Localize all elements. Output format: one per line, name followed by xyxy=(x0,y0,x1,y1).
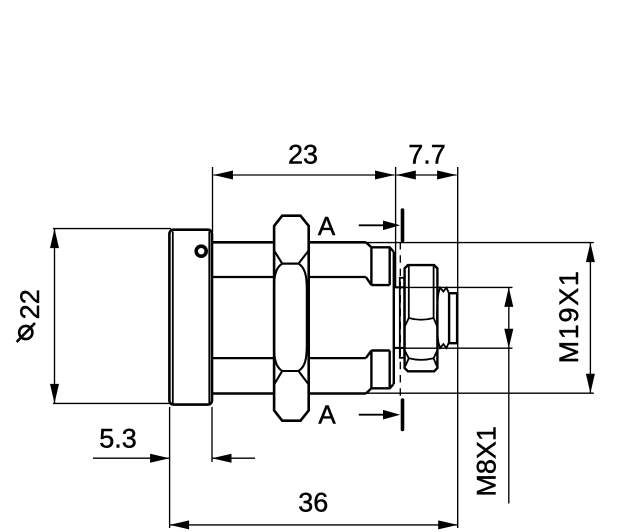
dia22 top extension xyxy=(53,228,171,230)
arrowhead 7.7 left xyxy=(396,171,416,180)
inner cylinder bottom line xyxy=(212,357,366,359)
M19X1 bottom extension xyxy=(366,392,594,394)
barrel bottom line xyxy=(212,392,366,395)
right extension line long xyxy=(457,167,459,528)
M8 stem bottom xyxy=(394,347,405,349)
dia22 bottom extension xyxy=(53,402,171,404)
M8 thread left boundary xyxy=(437,293,438,342)
svg-text:M19X1: M19X1 xyxy=(554,269,584,363)
arrowhead M8 top xyxy=(504,287,513,307)
arrowhead 7.7 right xyxy=(437,171,457,180)
arrowhead M19 bottom xyxy=(586,374,595,394)
M8 thread crest zigzag top xyxy=(438,288,449,294)
end stub xyxy=(449,293,457,343)
panel bar top xyxy=(401,210,405,241)
lock nut chamfer diagonals xyxy=(405,318,437,358)
svg-text:22: 22 xyxy=(15,289,45,319)
arrowhead 36 left xyxy=(170,520,190,529)
M8X1 dim line xyxy=(508,287,510,503)
arrowhead A top xyxy=(383,221,400,231)
hex middle lens xyxy=(274,264,307,371)
dim 5.3 right tail xyxy=(212,457,255,459)
svg-text:36: 36 xyxy=(298,488,328,518)
arrowhead 5.3 left xyxy=(150,454,170,463)
svg-text:A: A xyxy=(318,400,336,430)
hex top face boundary xyxy=(274,251,309,264)
panel dashed line xyxy=(399,242,401,398)
diameter symbol slash xyxy=(17,323,35,342)
M8 stem top xyxy=(394,286,405,288)
dim 23 left extension xyxy=(212,167,214,232)
dia22 dim line xyxy=(54,229,56,404)
washer xyxy=(400,278,404,358)
M8 thread crest zigzag bottom xyxy=(438,343,449,349)
dim 5.3 right extension xyxy=(211,407,213,462)
hole xyxy=(196,246,206,256)
M8 thread right boundary xyxy=(448,293,450,342)
M8X1 top extension xyxy=(394,286,513,288)
barrel top line xyxy=(212,241,366,244)
section arrow A top xyxy=(359,224,385,226)
dim 7.7 line xyxy=(396,174,456,176)
dim 36 line xyxy=(170,524,458,526)
svg-text:23: 23 xyxy=(288,140,318,170)
dim 5.3 left tail xyxy=(93,457,170,459)
arrowhead dia22 bottom xyxy=(50,384,59,404)
svg-text:M8X1: M8X1 xyxy=(472,426,502,497)
lock nut face arc upper xyxy=(409,318,434,320)
lock nut face arc lower xyxy=(409,358,434,360)
section arrow A bottom xyxy=(359,414,385,416)
lock nut inner left xyxy=(408,265,410,318)
arrowhead M8 bottom xyxy=(504,329,513,349)
cap xyxy=(169,230,212,405)
arrowhead 5.3 right xyxy=(212,454,232,463)
panel bar bottom xyxy=(401,400,405,429)
arrowhead 23 right xyxy=(375,171,395,180)
M19X1 dim line xyxy=(589,243,591,394)
hex nut outline xyxy=(274,216,309,421)
left extension line long xyxy=(169,407,171,528)
thread end face xyxy=(393,252,395,385)
lock nut inner right xyxy=(433,265,435,318)
svg-text:7.7: 7.7 xyxy=(408,140,446,170)
svg-text:5.3: 5.3 xyxy=(99,424,137,454)
cap inner right line xyxy=(208,232,210,404)
M19X1 top extension xyxy=(366,242,594,244)
svg-text:A: A xyxy=(318,211,336,241)
M8X1 bottom extension xyxy=(394,347,513,349)
thread collar top xyxy=(366,242,394,285)
arrowhead 36 right xyxy=(438,520,458,529)
hex bottom face boundary xyxy=(274,371,309,385)
dim 23 line xyxy=(214,174,395,176)
diameter symbol circle xyxy=(19,326,32,339)
cap inner left line xyxy=(172,232,174,404)
lock nut outline xyxy=(405,265,438,371)
inner cylinder top line xyxy=(212,276,366,278)
arrowhead dia22 top xyxy=(50,229,59,249)
arrowhead 23 left xyxy=(214,171,234,180)
lock nut bottom face diagonals xyxy=(405,358,436,366)
arrowhead A bottom xyxy=(383,410,400,420)
arrowhead M19 top xyxy=(586,243,595,263)
thread collar bottom xyxy=(366,351,394,394)
panel extension line xyxy=(395,167,397,287)
